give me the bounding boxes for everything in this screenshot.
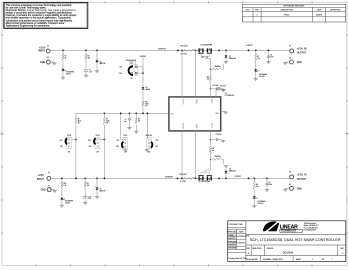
- svg-text:RS2 0.007: RS2 0.007: [180, 174, 187, 176]
- Linear Technology logo: [263, 221, 319, 232]
- resistor R13: [207, 69, 212, 97]
- capacitor C4 at U1 VCC: [216, 86, 226, 97]
- svg-text:3.3VINPUT: 3.3VINPUT: [165, 176, 173, 178]
- jumper JP1 sequence select: [119, 60, 144, 80]
- resistor R1: [62, 50, 67, 68]
- svg-text:Applications Engineering for a: Applications Engineering for assistance.: [6, 24, 51, 27]
- svg-text:1uF: 1uF: [89, 198, 92, 200]
- svg-text:R6: R6: [256, 184, 258, 186]
- svg-text:GND: GND: [40, 62, 45, 64]
- ground below C6: [266, 62, 270, 64]
- connector E2 +5.0V output: [289, 46, 307, 55]
- wire ON net to U1: [76, 113, 169, 115]
- title block drawing info: [245, 234, 346, 261]
- LED D7 green 5.0V out: [254, 69, 267, 78]
- svg-text:OFF: OFF: [88, 140, 91, 142]
- svg-text:Tuesday, May 04, 2010: Tuesday, May 04, 2010: [228, 258, 246, 260]
- capacitor C6: [267, 50, 274, 61]
- svg-text:JP1: JP1: [130, 78, 133, 80]
- svg-text:DC1004A: DC1004A: [283, 251, 294, 254]
- svg-text:1.8k: 1.8k: [64, 185, 67, 187]
- svg-text:E2: E2: [289, 46, 291, 48]
- wire JP3 to 3.3V rail: [100, 139, 105, 179]
- svg-text:ON: ON: [60, 146, 62, 148]
- svg-text:D5: D5: [146, 87, 148, 89]
- svg-text:FILENAME: 1004A-3.DSN: FILENAME: 1004A-3.DSN: [263, 258, 284, 261]
- sense resistor RS2: [180, 174, 196, 183]
- svg-text:E4: E4: [289, 58, 291, 60]
- LED D8 green 3.3V input: [60, 198, 72, 206]
- ground below C7: [127, 128, 131, 130]
- disclaimer text box: [4, 2, 88, 28]
- resistor R3: [85, 50, 90, 68]
- svg-text:4.99k: 4.99k: [145, 104, 149, 106]
- svg-text:DWG NO.: DWG NO.: [267, 248, 275, 250]
- svg-text:TIMER2: TIMER2: [195, 123, 197, 128]
- svg-text:3.3VOUT: 3.3VOUT: [234, 176, 241, 178]
- connector E3 GND input top: [40, 57, 57, 65]
- capacitor C9: [265, 178, 272, 189]
- svg-text:CHECKED: CHECKED: [228, 238, 236, 240]
- diode D5: [142, 87, 150, 101]
- svg-text:OFF: OFF: [60, 140, 63, 142]
- ground below C10: [83, 203, 87, 205]
- svg-text:C1: C1: [89, 70, 91, 72]
- svg-text:APPROVED: APPROVED: [330, 9, 341, 12]
- svg-text:8/24/10: 8/24/10: [239, 241, 243, 243]
- svg-text:APPROVALS: APPROVALS: [227, 231, 238, 234]
- wire JP2 to 3.3V rail: [72, 139, 77, 179]
- svg-text:R2: R2: [257, 56, 259, 58]
- svg-text:+5.0V, 5A: +5.0V, 5A: [297, 48, 308, 51]
- svg-text:5V FLT: 5V FLT: [123, 135, 127, 137]
- connector E1 +5.0V input: [38, 45, 50, 53]
- capacitor C8: [210, 134, 225, 142]
- svg-text:3.3V OUT: 3.3V OUT: [258, 203, 264, 205]
- svg-text:OFF: OFF: [116, 146, 119, 148]
- svg-text:+3.3V, 7A: +3.3V, 7A: [297, 174, 308, 177]
- svg-text:R7: R7: [106, 118, 108, 120]
- resistor R6 JP2 chain: [75, 113, 81, 138]
- net label 5.0VOUT: [246, 45, 253, 47]
- svg-text:C6: C6: [270, 54, 272, 56]
- svg-text:GND: GND: [41, 189, 46, 191]
- svg-text:R16B 665: R16B 665: [215, 156, 221, 158]
- jumper JP2 5V on/off: [60, 135, 72, 154]
- svg-text:LED GREEN: LED GREEN: [65, 200, 73, 202]
- svg-text:SCH, LTC1645CS8, DUAL HOT SWAP: SCH, LTC1645CS8, DUAL HOT SWAP CONTROLLE…: [250, 237, 341, 242]
- LED D9 green 3.3V out: [253, 196, 266, 205]
- jumper JP4 fault select: [120, 113, 123, 140]
- ground below LED D9: [252, 206, 256, 208]
- svg-text:OUTPUT: OUTPUT: [297, 179, 307, 181]
- svg-text:R12: R12: [202, 57, 205, 59]
- svg-text:DATE: DATE: [317, 9, 322, 12]
- svg-text:R8: R8: [138, 118, 140, 120]
- svg-text:C10: C10: [89, 196, 92, 198]
- ground below D1: [95, 71, 99, 73]
- capacitor C1: [84, 70, 92, 76]
- svg-text:1: 1: [312, 259, 313, 261]
- svg-text:C4 0.1uF: C4 0.1uF: [220, 86, 226, 88]
- svg-text:ON: ON: [117, 140, 119, 142]
- svg-text:E1: E1: [47, 45, 49, 47]
- ground below JP4: [123, 149, 127, 152]
- svg-text:1.8k: 1.8k: [256, 186, 259, 188]
- svg-text:D4: D4: [229, 169, 231, 171]
- svg-text:Phone: (408) 432-1900: Phone: (408) 432-1900: [304, 227, 318, 229]
- svg-text:E6: E6: [289, 172, 291, 174]
- svg-text:R11: R11: [145, 102, 148, 104]
- svg-text:1uF: 1uF: [89, 72, 92, 74]
- ground below C9: [265, 190, 269, 192]
- svg-text:ON: ON: [89, 146, 91, 148]
- svg-text:LED GREEN: LED GREEN: [66, 71, 74, 73]
- svg-text:Q2 RJK0301DPB: Q2 RJK0301DPB: [199, 181, 211, 183]
- svg-text:R6: R6: [78, 118, 80, 120]
- svg-text:C8 0.1uF: C8 0.1uF: [216, 134, 222, 136]
- resistor R14: [61, 178, 67, 197]
- svg-text:+5.0V: +5.0V: [39, 47, 46, 49]
- diode D4: [224, 165, 236, 178]
- revision history table: [243, 4, 346, 22]
- svg-text:5.0VOUT: 5.0VOUT: [246, 45, 253, 47]
- svg-text:ON: ON: [171, 113, 173, 115]
- svg-text:E3: E3: [47, 57, 49, 59]
- svg-text:JP1: JP1: [68, 152, 71, 154]
- svg-text:C7: C7: [125, 119, 127, 121]
- wire U1 pin VCC1 to rail: [181, 50, 183, 97]
- svg-text:OF: OF: [322, 259, 324, 261]
- svg-text:LINEAR: LINEAR: [280, 224, 299, 230]
- wire sequence node to D5: [140, 56, 146, 87]
- svg-text:0.1uF: 0.1uF: [269, 184, 273, 186]
- svg-text:C9: C9: [269, 182, 271, 184]
- svg-text:OFF: OFF: [119, 73, 122, 75]
- title block: [227, 221, 346, 262]
- svg-text:5.0V OUT: 5.0V OUT: [259, 76, 265, 78]
- svg-text:GND: GND: [297, 188, 302, 190]
- svg-text:3.3V IN: 3.3V IN: [65, 202, 70, 204]
- svg-text:JP4: JP4: [148, 152, 151, 154]
- wire 5V input rail: [50, 48, 290, 51]
- svg-text:R1: R1: [65, 55, 67, 57]
- wire U1 FB2 drop: [195, 131, 197, 178]
- LED D6 green 5.0V input: [62, 69, 74, 77]
- svg-text:SENSE1: SENSE1: [182, 99, 184, 105]
- svg-text:0.1uF: 0.1uF: [270, 56, 274, 58]
- wire U1 pin TIMER riser: [195, 50, 197, 97]
- connector E5 +3.3V input: [37, 172, 51, 181]
- svg-text:LTC1645CS8: LTC1645CS8: [225, 95, 234, 97]
- svg-text:2: 2: [257, 14, 258, 16]
- net label 3.3VOUT: [234, 176, 241, 178]
- svg-text:R15: R15: [212, 148, 215, 150]
- svg-text:5.0V IN: 5.0V IN: [66, 73, 71, 75]
- svg-text:1.8k: 1.8k: [257, 58, 260, 60]
- svg-text:SIZE: SIZE: [246, 248, 249, 250]
- capacitor C5: [210, 85, 225, 91]
- resistor R15: [209, 131, 214, 159]
- svg-text:Q1 RJK0301DPB: Q1 RJK0301DPB: [201, 45, 213, 47]
- svg-text:E5: E5: [48, 172, 50, 174]
- svg-text:DESIGNER: DESIGNER: [228, 248, 237, 250]
- svg-text:5.0VINPUT: 5.0VINPUT: [158, 48, 166, 50]
- transistor Q1 dual MOSFET: [198, 45, 212, 59]
- diode D3: [96, 178, 106, 196]
- svg-text:LED GREEN: LED GREEN: [258, 201, 266, 203]
- ground below LED D8: [60, 205, 64, 207]
- connector E4 GND output top: [283, 58, 302, 65]
- capacitor C7: [124, 113, 131, 127]
- svg-text:ENGINEER: ENGINEER: [228, 245, 237, 247]
- connector E6 +3.3V output: [289, 172, 307, 181]
- sense resistor RS1: [181, 45, 196, 55]
- svg-text:SHEET: SHEET: [296, 259, 302, 261]
- resistor R5: [84, 178, 89, 196]
- svg-text:PL 1206: PL 1206: [180, 181, 186, 183]
- resistor R6: [253, 178, 259, 196]
- diode D1: [96, 50, 106, 70]
- svg-text:LED GREEN: LED GREEN: [259, 74, 267, 76]
- svg-text:JP2: JP2: [96, 152, 99, 154]
- svg-text:U1: U1: [225, 93, 227, 95]
- svg-text:10k: 10k: [138, 120, 140, 122]
- svg-text:8/24/10: 8/24/10: [316, 14, 322, 16]
- svg-text:BD/3V OFF: BD/3V OFF: [145, 135, 152, 137]
- svg-text:INPUT: INPUT: [38, 50, 46, 52]
- svg-text:D1: D1: [100, 61, 102, 63]
- svg-text:GND: GND: [297, 62, 302, 64]
- resistor R11: [142, 101, 149, 114]
- resistor R16A gate: [210, 58, 224, 70]
- svg-text:R3: R3: [88, 55, 90, 57]
- transistor Q2 dual MOSFET: [198, 170, 212, 183]
- ground below R8: [134, 131, 138, 133]
- svg-text:7/29/10: 7/29/10: [239, 235, 243, 237]
- ground below LED D7: [254, 78, 258, 80]
- svg-text:DESCRIPTION: DESCRIPTION: [281, 10, 294, 12]
- svg-text:R5: R5: [87, 183, 89, 185]
- svg-text:SCALE=NONE: SCALE=NONE: [246, 258, 258, 261]
- svg-text:R13: R13: [207, 77, 210, 79]
- resistor R2: [255, 50, 261, 69]
- svg-text:C5 0.1uF: C5 0.1uF: [213, 85, 219, 87]
- svg-text:ECO: ECO: [246, 10, 250, 12]
- resistor R8: [135, 113, 140, 131]
- svg-text:+3.3V: +3.3V: [38, 175, 45, 177]
- svg-text:PROD: PROD: [284, 14, 290, 16]
- svg-text:SENSE2: SENSE2: [182, 123, 184, 129]
- svg-text:10k: 10k: [207, 79, 209, 81]
- svg-text:46.4k: 46.4k: [106, 120, 110, 122]
- connector E8 GND output bottom: [283, 184, 302, 191]
- ground below JP5: [145, 149, 149, 152]
- capacitor C10: [83, 196, 91, 202]
- svg-text:10k: 10k: [212, 150, 214, 152]
- svg-text:INPUT: INPUT: [37, 179, 45, 181]
- svg-text:ON: ON: [131, 62, 133, 64]
- svg-text:10k: 10k: [88, 57, 91, 59]
- wire U1 SENSE2 drop: [181, 131, 183, 178]
- svg-text:5V ON: 5V ON: [67, 135, 71, 137]
- svg-text:R14: R14: [64, 183, 67, 185]
- svg-text:OUTPUT: OUTPUT: [297, 53, 307, 55]
- resistor R16B gate: [210, 156, 224, 170]
- svg-text:RS1 0.007: RS1 0.007: [181, 45, 188, 47]
- diode D2: [224, 50, 236, 63]
- svg-text:10k: 10k: [87, 185, 90, 187]
- connector E7 GND input bottom: [41, 186, 57, 193]
- jumper JP5 BD/3V off select: [146, 113, 148, 139]
- svg-text:REVISION HISTORY: REVISION HISTORY: [284, 6, 305, 8]
- ground at U1 GND pin: [221, 111, 228, 114]
- svg-text:PL 1206: PL 1206: [181, 53, 187, 55]
- svg-text:3V ON: 3V ON: [96, 135, 100, 137]
- wire 3.3V input rail: [51, 176, 290, 179]
- op-amp U1 LTC1645CS8 hot swap controller: [169, 93, 234, 131]
- svg-text:D3: D3: [100, 189, 102, 191]
- ground below D3: [95, 196, 99, 198]
- svg-text:Fax: (408) 434-0507: Fax: (408) 434-0507: [304, 230, 316, 232]
- svg-text:1uF: 1uF: [124, 121, 126, 123]
- svg-text:E8: E8: [289, 184, 291, 186]
- resistor R7 JP3 chain: [103, 113, 109, 138]
- svg-text:46.4k: 46.4k: [78, 120, 82, 122]
- svg-text:CONTRACT NO.: CONTRACT NO.: [229, 223, 244, 226]
- ground below LED D6: [61, 77, 65, 79]
- svg-text:ON: ON: [120, 67, 122, 69]
- svg-text:YES: YES: [155, 140, 158, 142]
- svg-text:TECHNOLOGY: TECHNOLOGY: [281, 231, 297, 233]
- svg-text:1: 1: [332, 259, 333, 261]
- svg-text:TIMER1: TIMER1: [195, 99, 197, 104]
- jumper JP3 3V on/off: [88, 135, 100, 154]
- svg-text:2: 2: [342, 253, 343, 255]
- svg-text:D2: D2: [229, 56, 231, 58]
- ground below C1: [84, 75, 88, 77]
